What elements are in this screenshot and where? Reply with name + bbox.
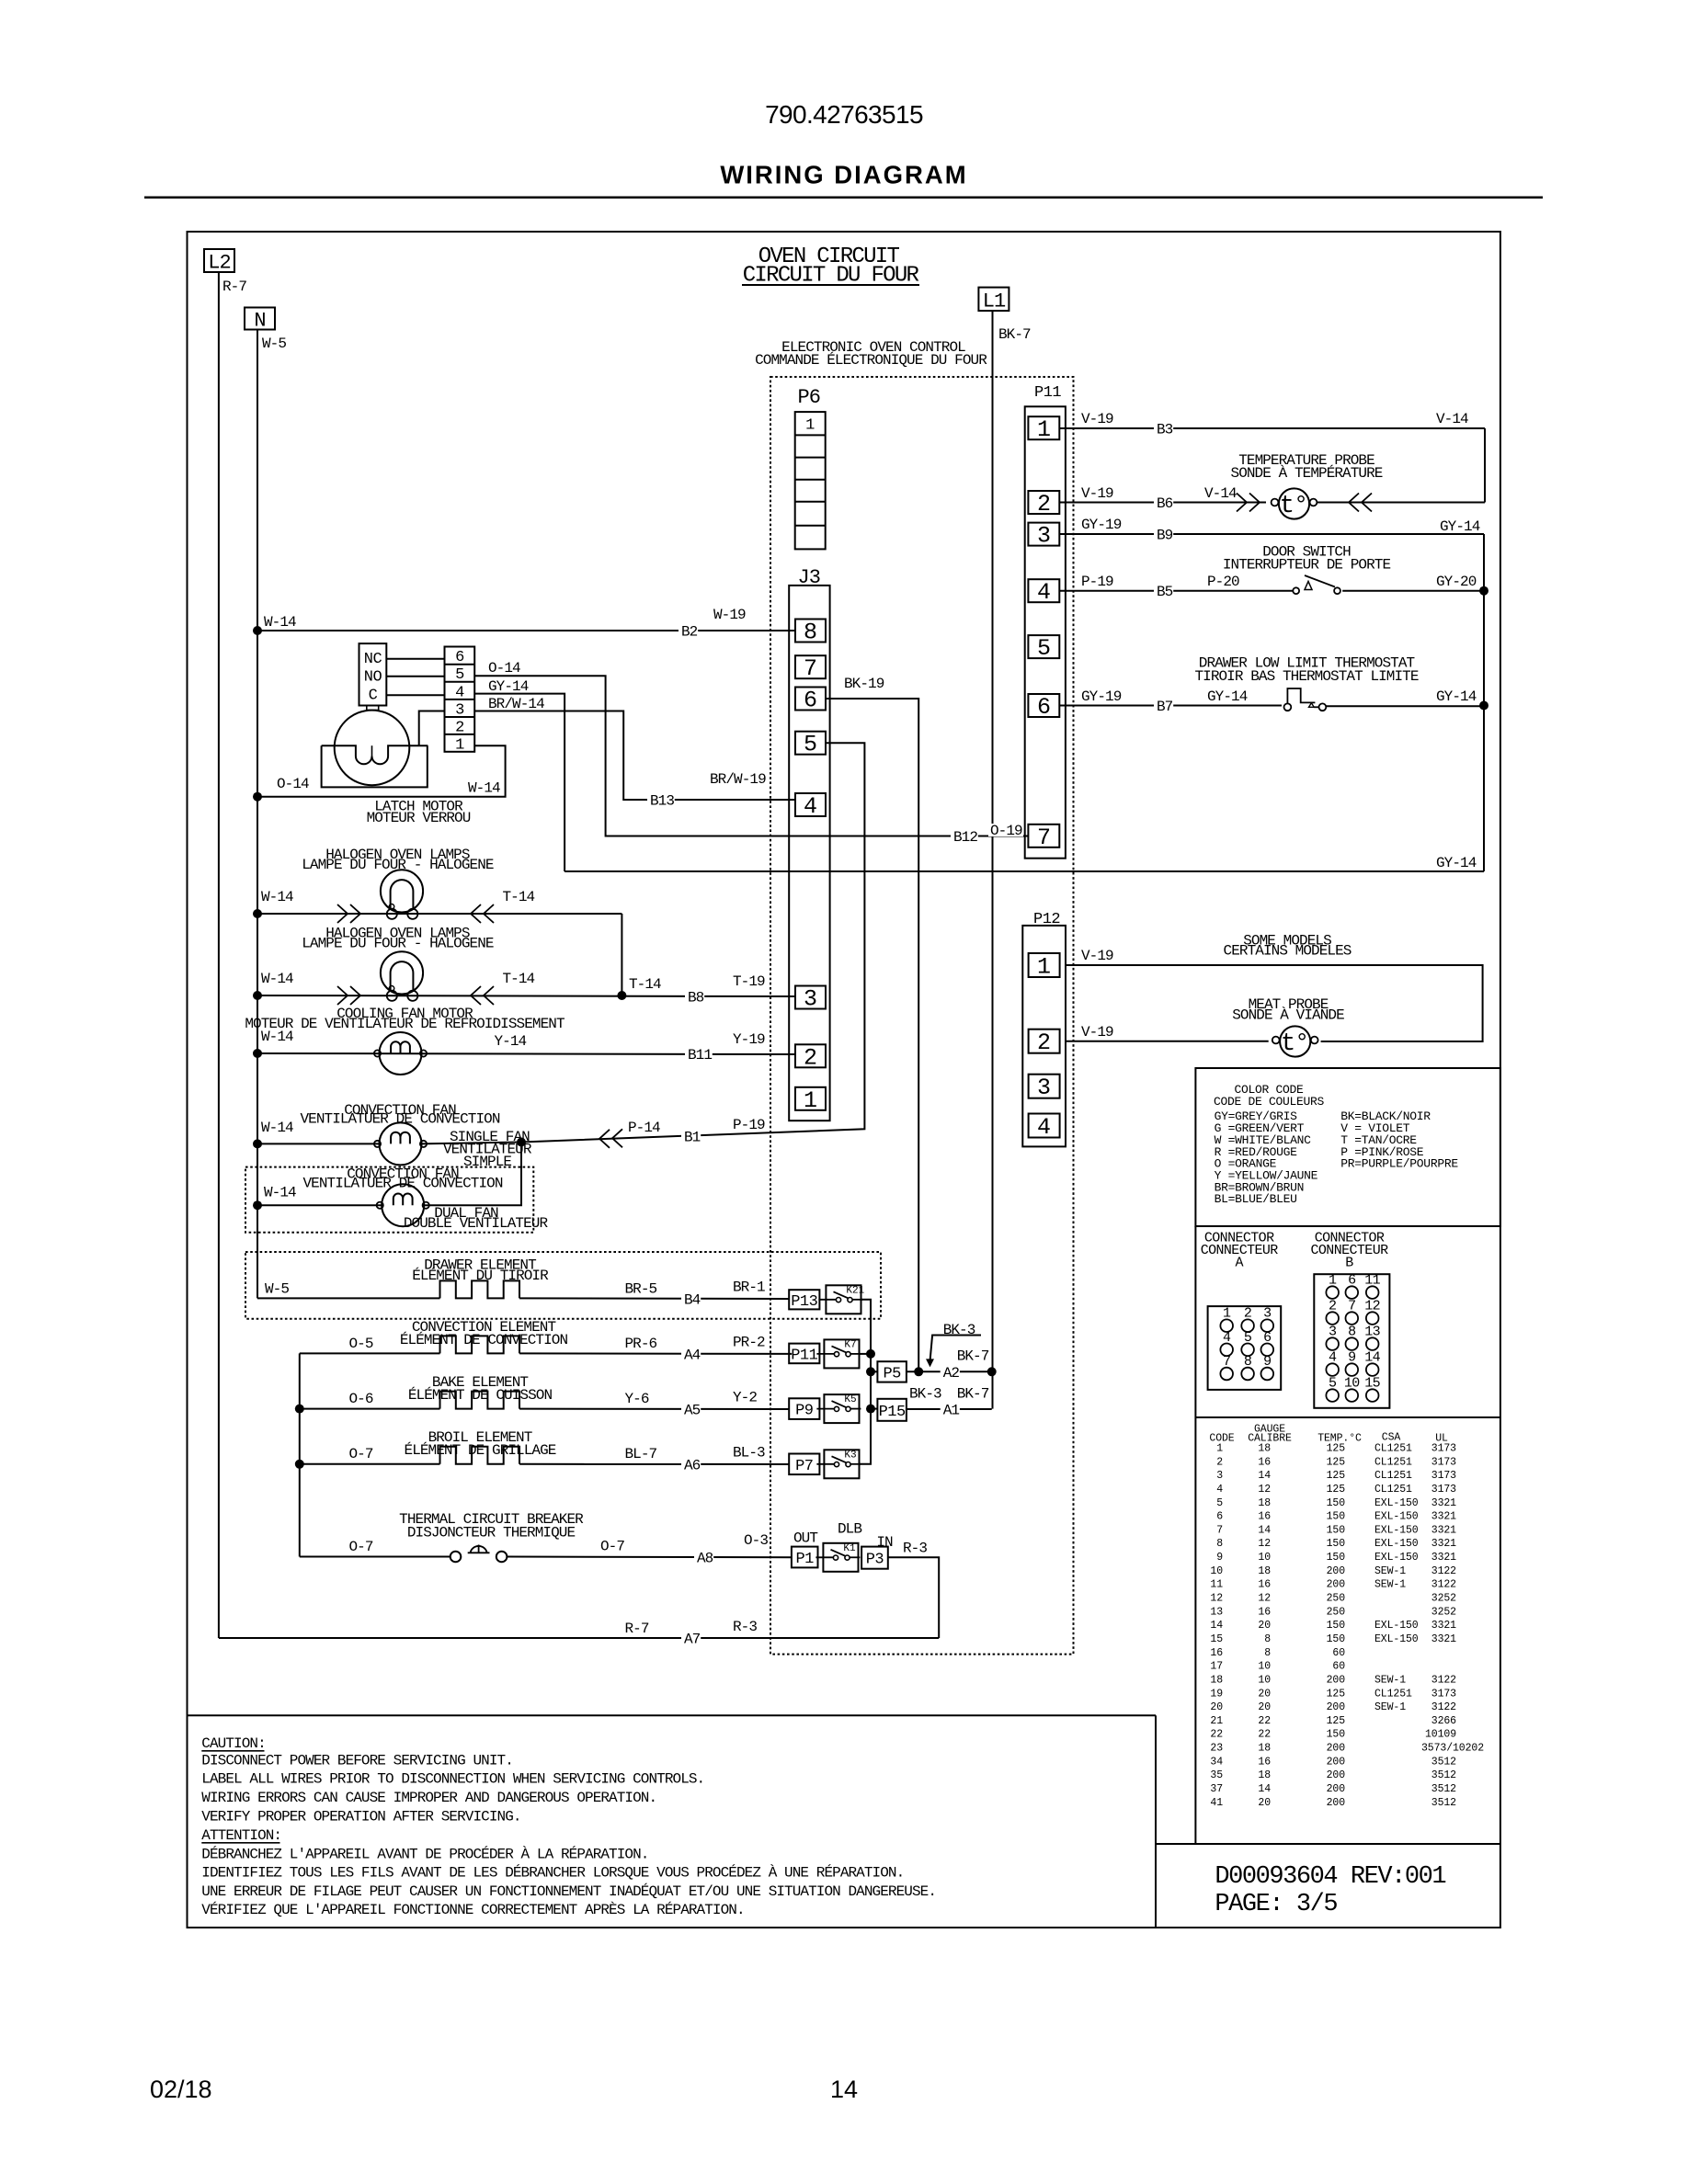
svg-text:3321: 3321	[1431, 1633, 1456, 1645]
svg-text:B9: B9	[1157, 528, 1173, 544]
svg-text:O-6: O-6	[349, 1391, 373, 1407]
svg-text:O-5: O-5	[349, 1336, 373, 1352]
svg-text:22: 22	[1210, 1729, 1223, 1741]
svg-text:L1: L1	[983, 290, 1006, 313]
svg-text:P1: P1	[795, 1551, 814, 1568]
svg-text:10: 10	[1258, 1552, 1271, 1564]
wire B5 P-19/P-20 from P11-4	[1059, 590, 1293, 592]
terminal L2	[204, 249, 234, 272]
svg-text:5: 5	[455, 666, 464, 684]
svg-text:R-3: R-3	[733, 1619, 757, 1635]
svg-text:Y-6: Y-6	[625, 1391, 649, 1407]
relay K1 DLB	[823, 1543, 858, 1572]
wire halogen lamp row 1	[257, 913, 622, 915]
wire A2 BK-7 P5 to L1 bus	[907, 1371, 992, 1372]
svg-text:EXL-150: EXL-150	[1374, 1620, 1419, 1632]
svg-text:W-14: W-14	[261, 971, 293, 987]
connector section	[1195, 1225, 1500, 1227]
svg-text:P3: P3	[866, 1552, 884, 1569]
svg-text:B8: B8	[688, 990, 704, 1007]
svg-text:20: 20	[1210, 1701, 1223, 1713]
svg-text:A4: A4	[684, 1348, 701, 1364]
svg-text:PAGE: 3/5: PAGE: 3/5	[1215, 1891, 1337, 1918]
svg-text:BK-3: BK-3	[909, 1386, 941, 1403]
svg-text:CL1251: CL1251	[1374, 1470, 1412, 1482]
connector P7	[789, 1454, 819, 1475]
svg-text:18: 18	[1258, 1565, 1271, 1577]
wire NC to pin6	[386, 658, 444, 660]
main border	[188, 232, 1500, 1928]
cooling fan motor M2	[380, 1032, 422, 1075]
svg-text:150: 150	[1327, 1497, 1346, 1509]
svg-text:VENTILATUER DE CONVECTION: VENTILATUER DE CONVECTION	[300, 1111, 499, 1128]
svg-text:DÉBRANCHEZ L'APPAREIL AVANT DE: DÉBRANCHEZ L'APPAREIL AVANT DE PROCÉDER …	[201, 1845, 648, 1862]
svg-text:EXL-150: EXL-150	[1374, 1538, 1419, 1550]
wire V-19 P12-2 to meat probe	[1066, 1041, 1269, 1042]
svg-text:18: 18	[1258, 1497, 1271, 1509]
electronic oven control dashed box	[770, 377, 1074, 1655]
svg-text:41: 41	[1210, 1797, 1223, 1809]
svg-text:P11: P11	[1034, 384, 1061, 402]
svg-text:150: 150	[1327, 1620, 1346, 1632]
svg-text:16: 16	[1258, 1456, 1271, 1468]
svg-text:200: 200	[1327, 1797, 1346, 1809]
svg-text:R-7: R-7	[222, 279, 246, 295]
svg-text:K1: K1	[843, 1543, 856, 1554]
wire door switch to GY-20 node	[1342, 590, 1484, 592]
latch motor M1	[335, 711, 410, 786]
node relay bus K7	[866, 1349, 875, 1359]
svg-text:20: 20	[1258, 1620, 1271, 1632]
svg-text:B1: B1	[684, 1130, 701, 1146]
svg-text:D00093604 REV:001: D00093604 REV:001	[1215, 1863, 1445, 1891]
svg-text:3512: 3512	[1431, 1756, 1456, 1768]
svg-text:BK-7: BK-7	[998, 326, 1031, 343]
wire W-14 B2 W-19 to J3-8	[257, 630, 795, 631]
wire C to pin4	[386, 694, 444, 696]
temperature probe t	[1279, 488, 1309, 518]
thermal circuit breaker CB1	[451, 1552, 462, 1563]
svg-text:GY-20: GY-20	[1436, 574, 1477, 590]
relay K7	[824, 1339, 859, 1368]
connector P1	[792, 1547, 818, 1568]
svg-text:O-7: O-7	[349, 1446, 373, 1462]
svg-text:3173: 3173	[1431, 1443, 1456, 1455]
svg-text:BK-19: BK-19	[844, 676, 884, 692]
svg-text:Y-19: Y-19	[733, 1031, 765, 1048]
wire temperature probe to V-14 riser	[1317, 502, 1485, 504]
bake heating element	[440, 1392, 519, 1409]
svg-text:K5: K5	[844, 1394, 856, 1405]
svg-text:EXL-150: EXL-150	[1374, 1511, 1419, 1523]
svg-text:EXL-150: EXL-150	[1374, 1552, 1419, 1564]
svg-text:WIRING ERRORS CAN CAUSE IMPROP: WIRING ERRORS CAN CAUSE IMPROPER AND DAN…	[201, 1790, 656, 1806]
svg-text:8: 8	[1264, 1633, 1271, 1645]
svg-text:3321: 3321	[1431, 1497, 1456, 1509]
svg-text:02/18: 02/18	[150, 2076, 212, 2103]
svg-text:BR/W-19: BR/W-19	[710, 771, 766, 788]
svg-text:2: 2	[1216, 1456, 1223, 1468]
svg-text:NO: NO	[364, 669, 382, 687]
svg-text:13: 13	[1210, 1606, 1223, 1618]
svg-text:B7: B7	[1157, 699, 1173, 715]
svg-text:CL1251: CL1251	[1374, 1456, 1412, 1468]
wire GY-14 return bottom	[565, 870, 1484, 872]
svg-text:A7: A7	[684, 1632, 701, 1648]
meat probe t	[1280, 1026, 1310, 1056]
svg-text:3512: 3512	[1431, 1797, 1456, 1809]
wire BK-19 J3-6 to A2 node	[826, 699, 918, 1371]
svg-text:B4: B4	[684, 1292, 701, 1309]
svg-text:VERIFY PROPER OPERATION AFTER: VERIFY PROPER OPERATION AFTER SERVICING.	[201, 1809, 520, 1826]
svg-text:GY-14: GY-14	[488, 678, 529, 695]
svg-text:A1: A1	[943, 1403, 960, 1419]
svg-text:R-3: R-3	[903, 1541, 927, 1557]
svg-text:8: 8	[804, 620, 817, 646]
svg-text:B6: B6	[1157, 495, 1173, 512]
svg-text:7: 7	[1216, 1524, 1223, 1536]
svg-text:P6: P6	[798, 386, 820, 409]
svg-text:20: 20	[1258, 1701, 1271, 1713]
svg-text:CL1251: CL1251	[1374, 1484, 1412, 1496]
svg-text:K3: K3	[844, 1450, 856, 1461]
svg-text:8: 8	[1216, 1538, 1223, 1550]
svg-text:CERTAINS MODELES: CERTAINS MODELES	[1224, 943, 1352, 960]
svg-text:9: 9	[1216, 1552, 1223, 1564]
svg-text:3321: 3321	[1431, 1538, 1456, 1550]
svg-text:GY-14: GY-14	[1436, 688, 1477, 705]
svg-text:5: 5	[1037, 635, 1051, 662]
svg-text:SEW-1: SEW-1	[1374, 1701, 1406, 1713]
terminal L1	[978, 288, 1009, 312]
node W-14 lamp2	[253, 991, 262, 1000]
svg-text:ÉLÉMENT DE GRILLAGE: ÉLÉMENT DE GRILLAGE	[405, 1441, 556, 1459]
connector P13	[789, 1290, 819, 1309]
node A2 on L1 bus	[987, 1367, 997, 1376]
svg-text:O-3: O-3	[744, 1532, 768, 1549]
svg-text:125: 125	[1327, 1688, 1346, 1700]
svg-text:N: N	[254, 310, 265, 333]
wire thermostat to GY-14 node	[1326, 705, 1484, 707]
svg-text:21: 21	[1210, 1715, 1223, 1727]
broil heating element	[440, 1447, 519, 1464]
svg-text:V-14: V-14	[1204, 485, 1237, 502]
wire dual fan row W-14	[257, 1204, 382, 1206]
wire BK-7 bus from L1	[992, 311, 994, 1409]
svg-text:10109: 10109	[1425, 1729, 1456, 1741]
svg-text:W-14: W-14	[468, 780, 500, 797]
svg-text:16: 16	[1258, 1511, 1271, 1523]
connector P5	[877, 1361, 907, 1382]
svg-text:DISCONNECT POWER BEFORE SERVIC: DISCONNECT POWER BEFORE SERVICING UNIT.	[201, 1752, 513, 1769]
wire latch motor to latch connector pin3	[419, 711, 445, 746]
svg-text:EXL-150: EXL-150	[1374, 1524, 1419, 1536]
svg-text:O-7: O-7	[349, 1539, 373, 1555]
svg-text:OUT: OUT	[793, 1530, 817, 1547]
svg-text:P11: P11	[791, 1347, 817, 1364]
svg-text:3173: 3173	[1431, 1456, 1456, 1468]
node relay bus P5	[866, 1367, 875, 1376]
wire BR/W-14 B13 BR/W-19 latch pin3 to J3-4	[474, 711, 795, 801]
svg-text:W-19: W-19	[713, 607, 746, 623]
halogen oven lamp 2	[381, 951, 423, 994]
svg-text:6: 6	[1037, 694, 1051, 721]
svg-text:2: 2	[1037, 491, 1051, 518]
wire B9 GY-19/GY-14 from P11-3	[1059, 533, 1484, 535]
svg-text:3512: 3512	[1431, 1769, 1456, 1781]
svg-text:19: 19	[1210, 1688, 1223, 1700]
svg-text:A2: A2	[943, 1365, 960, 1382]
svg-text:6: 6	[1216, 1511, 1223, 1523]
svg-text:3252: 3252	[1431, 1606, 1456, 1618]
svg-text:PR-6: PR-6	[625, 1336, 657, 1352]
svg-text:20: 20	[1258, 1797, 1271, 1809]
svg-text:3252: 3252	[1431, 1593, 1456, 1605]
svg-text:BL-7: BL-7	[625, 1446, 657, 1462]
wire R-3 DLB in	[888, 1557, 939, 1638]
svg-text:2: 2	[1037, 1029, 1051, 1056]
svg-text:V-19: V-19	[1081, 1024, 1113, 1041]
arrows lamp1	[337, 904, 348, 923]
svg-text:2: 2	[455, 720, 464, 737]
svg-text:1: 1	[1216, 1443, 1223, 1455]
svg-text:60: 60	[1332, 1647, 1345, 1659]
svg-text:4: 4	[1037, 579, 1051, 606]
terminal N	[245, 308, 275, 330]
svg-text:37: 37	[1210, 1783, 1223, 1795]
svg-text:LABEL ALL WIRES PRIOR TO DISCO: LABEL ALL WIRES PRIOR TO DISCONNECTION W…	[201, 1771, 704, 1788]
svg-text:P5: P5	[883, 1365, 901, 1382]
svg-text:V-19: V-19	[1081, 485, 1113, 502]
svg-text:200: 200	[1327, 1756, 1346, 1768]
svg-text:1: 1	[1037, 416, 1051, 443]
svg-text:DLB: DLB	[838, 1521, 861, 1538]
wire dual fan to single fan node	[424, 1143, 521, 1206]
svg-text:10: 10	[1258, 1661, 1271, 1673]
header rule	[144, 196, 1543, 199]
svg-text:B: B	[1345, 1256, 1353, 1271]
svg-text:CODE DE COULEURS: CODE DE COULEURS	[1214, 1095, 1325, 1109]
svg-text:150: 150	[1327, 1633, 1346, 1645]
node relay bus K5	[866, 1405, 875, 1414]
wire GY-14 latch pin4 to return	[474, 694, 565, 871]
svg-text:BK-7: BK-7	[957, 1348, 989, 1365]
svg-text:20: 20	[1258, 1688, 1271, 1700]
wire B12 O-14/O-19 latch pin5 to P11-7	[474, 676, 1028, 836]
arrows lamp2	[337, 986, 348, 1005]
svg-text:SONDE À TEMPÉRATURE: SONDE À TEMPÉRATURE	[1231, 464, 1383, 482]
svg-text:P-19: P-19	[733, 1117, 765, 1133]
svg-text:SEW-1: SEW-1	[1374, 1674, 1406, 1686]
svg-text:A: A	[1235, 1256, 1243, 1271]
relay K5	[824, 1394, 859, 1423]
relay K3	[824, 1450, 859, 1478]
svg-text:150: 150	[1327, 1538, 1346, 1550]
node BK-19 join	[914, 1367, 923, 1376]
svg-text:14: 14	[1210, 1620, 1223, 1632]
door switch	[1293, 587, 1299, 594]
svg-text:14: 14	[1258, 1470, 1271, 1482]
svg-text:3: 3	[1037, 523, 1051, 550]
svg-text:A6: A6	[684, 1458, 701, 1474]
svg-text:CAUTION:: CAUTION:	[201, 1735, 265, 1752]
node W-14 dual fan	[253, 1200, 262, 1210]
svg-text:LAMPE DU FOUR - HALOGENE: LAMPE DU FOUR - HALOGENE	[302, 936, 494, 952]
svg-text:14: 14	[1258, 1783, 1271, 1795]
svg-text:W-5: W-5	[262, 336, 286, 352]
svg-text:200: 200	[1327, 1783, 1346, 1795]
svg-text:34: 34	[1210, 1756, 1223, 1768]
svg-text:150: 150	[1327, 1524, 1346, 1536]
svg-text:1: 1	[804, 1087, 817, 1114]
svg-text:DOUBLE VENTILATEUR: DOUBLE VENTILATEUR	[404, 1215, 549, 1232]
node W-14 J3-8 row	[253, 626, 262, 635]
svg-text:3173: 3173	[1431, 1470, 1456, 1482]
svg-text:T-14: T-14	[503, 971, 535, 987]
wire bake element O-6 Y-6 A5 Y-2	[300, 1408, 440, 1410]
svg-text:200: 200	[1327, 1701, 1346, 1713]
wire halogen lamp row 2 T-19 B8 to J3-3	[257, 995, 795, 996]
svg-text:Y-14: Y-14	[495, 1033, 527, 1050]
svg-text:GY-14: GY-14	[1440, 518, 1480, 535]
svg-text:BL-3: BL-3	[733, 1445, 765, 1462]
svg-text:GY-14: GY-14	[1207, 688, 1248, 705]
svg-text:B13: B13	[650, 793, 674, 810]
svg-text:4: 4	[1216, 1484, 1223, 1496]
wire K21 out to relay bus	[860, 1300, 872, 1464]
connector B pin grid	[1314, 1274, 1389, 1408]
svg-text:INTERRUPTEUR DE PORTE: INTERRUPTEUR DE PORTE	[1223, 557, 1391, 574]
svg-text:CSA: CSA	[1382, 1431, 1401, 1443]
svg-text:IN: IN	[876, 1534, 893, 1551]
svg-text:3: 3	[804, 986, 817, 1013]
svg-text:7: 7	[1037, 825, 1051, 851]
svg-text:BR-1: BR-1	[733, 1280, 765, 1296]
svg-text:60: 60	[1332, 1661, 1345, 1673]
svg-text:P15: P15	[879, 1404, 906, 1421]
svg-text:3122: 3122	[1431, 1701, 1456, 1713]
svg-text:8: 8	[1264, 1647, 1271, 1659]
wire W-5 bus from N	[257, 330, 258, 1299]
svg-text:t°: t°	[1280, 493, 1307, 520]
wire A1 BK-3/BK-7 P15 to L1 bus	[907, 1408, 992, 1410]
svg-text:EXL-150: EXL-150	[1374, 1497, 1419, 1509]
wire single fan row W-14	[257, 1143, 379, 1144]
svg-text:4: 4	[455, 684, 464, 701]
svg-text:5: 5	[1216, 1497, 1223, 1509]
svg-text:CL1251: CL1251	[1374, 1688, 1412, 1700]
arrows single fan	[599, 1130, 610, 1148]
svg-text:K21: K21	[846, 1285, 864, 1296]
svg-text:18: 18	[1258, 1743, 1271, 1755]
svg-text:125: 125	[1327, 1456, 1346, 1468]
convection heating element	[440, 1336, 519, 1353]
node W-14 cooling fan	[253, 1049, 262, 1058]
svg-text:16: 16	[1258, 1756, 1271, 1768]
svg-text:200: 200	[1327, 1579, 1346, 1591]
svg-text:P7: P7	[795, 1458, 813, 1475]
node T-14 join	[617, 991, 626, 1000]
svg-text:Y-2: Y-2	[733, 1390, 757, 1406]
document number box	[1155, 1715, 1157, 1928]
svg-text:200: 200	[1327, 1565, 1346, 1577]
svg-text:3173: 3173	[1431, 1688, 1456, 1700]
svg-text:B2: B2	[681, 624, 698, 641]
svg-text:22: 22	[1258, 1729, 1271, 1741]
svg-text:B11: B11	[688, 1047, 712, 1064]
svg-text:R-7: R-7	[625, 1621, 649, 1637]
wire cooling fan W-14 Y-14 B11 Y-19 to J3-2	[257, 1053, 795, 1054]
node W-14 lamp1	[253, 909, 262, 918]
svg-text:BK-7: BK-7	[957, 1386, 989, 1403]
svg-text:3: 3	[1037, 1075, 1051, 1101]
svg-text:V-14: V-14	[1436, 411, 1468, 427]
svg-text:18: 18	[1258, 1769, 1271, 1781]
svg-text:200: 200	[1327, 1743, 1346, 1755]
svg-text:V-19: V-19	[1081, 948, 1113, 964]
svg-text:200: 200	[1327, 1674, 1346, 1686]
svg-text:O-14: O-14	[488, 660, 520, 677]
relay K21	[826, 1285, 861, 1314]
connector A pin grid	[1208, 1306, 1282, 1390]
convection fan motor M3 single	[380, 1122, 422, 1165]
latch switch NC NO C block	[359, 643, 387, 705]
convection fan motor M4 dual	[382, 1184, 424, 1226]
svg-text:T-19: T-19	[733, 973, 765, 990]
svg-text:B12: B12	[953, 829, 977, 846]
node GY-14 thermostat	[1479, 701, 1488, 711]
drawer heating element	[440, 1280, 519, 1298]
svg-text:4: 4	[1037, 1114, 1051, 1141]
dual fan dashed box	[245, 1167, 533, 1233]
svg-text:BR/W-14: BR/W-14	[488, 696, 544, 712]
svg-text:12: 12	[1210, 1593, 1223, 1605]
svg-text:11: 11	[1210, 1579, 1223, 1591]
wire B7 GY-19/GY-14 from P11-6	[1059, 705, 1282, 707]
wire drawer element W-5 BR-5 B4 BR-1	[257, 1297, 440, 1299]
svg-text:W-14: W-14	[264, 1185, 296, 1201]
svg-text:DISJONCTEUR THERMIQUE: DISJONCTEUR THERMIQUE	[407, 1525, 576, 1541]
wire breaker row O-7 O-7 A8 O-3	[300, 1556, 451, 1558]
wire W-14 latch pin1 to N bus	[257, 745, 506, 797]
element feed bus O-5/O-6/O-7	[299, 1353, 301, 1556]
svg-text:200: 200	[1327, 1769, 1346, 1781]
svg-text:W-14: W-14	[261, 889, 293, 905]
svg-text:T-14: T-14	[503, 889, 535, 905]
caution box	[188, 1714, 1157, 1716]
svg-text:P13: P13	[791, 1293, 817, 1311]
connector P15	[877, 1399, 907, 1421]
svg-text:14: 14	[830, 2076, 858, 2103]
node W-14 latch	[253, 792, 262, 802]
svg-text:PR=PURPLE/POURPRE: PR=PURPLE/POURPRE	[1340, 1157, 1458, 1171]
svg-text:3321: 3321	[1431, 1511, 1456, 1523]
svg-text:SEW-1: SEW-1	[1374, 1565, 1406, 1577]
svg-text:4: 4	[804, 793, 817, 820]
svg-text:3321: 3321	[1431, 1552, 1456, 1564]
svg-text:16: 16	[1258, 1579, 1271, 1591]
wire K7 out	[860, 1353, 872, 1355]
svg-text:22: 22	[1258, 1715, 1271, 1727]
svg-text:P9: P9	[795, 1403, 814, 1420]
svg-text:15: 15	[1210, 1633, 1223, 1645]
svg-text:SEW-1: SEW-1	[1374, 1579, 1406, 1591]
wire latch motor left lead loop O-14	[322, 745, 428, 787]
node bake feed	[295, 1405, 304, 1414]
arrows to temperature probe	[1237, 494, 1247, 512]
svg-text:150: 150	[1327, 1552, 1346, 1564]
node GY-20	[1479, 586, 1488, 596]
